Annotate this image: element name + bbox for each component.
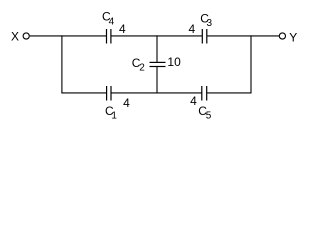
- label C4: [102, 10, 115, 28]
- node X: [11, 30, 19, 44]
- wire C3 to Y: [207, 35, 279, 37]
- wire middle branch lower: [156, 67, 158, 94]
- svg-text:X: X: [11, 30, 19, 44]
- svg-text:10: 10: [167, 55, 181, 69]
- capacitor C1: [107, 86, 111, 101]
- label C3: [200, 12, 212, 30]
- svg-text:1: 1: [111, 110, 117, 121]
- svg-text:4: 4: [109, 16, 115, 27]
- label C2: [132, 56, 146, 74]
- svg-text:4: 4: [190, 94, 197, 108]
- terminal X: [23, 33, 29, 39]
- terminal Y: [279, 33, 285, 39]
- wire bottom-left to C1: [61, 92, 106, 94]
- label C1: [105, 104, 117, 122]
- value 4 of C3: [189, 22, 196, 36]
- svg-text:5: 5: [206, 110, 212, 121]
- wire right branch up: [250, 35, 252, 93]
- wire X to C4: [30, 35, 106, 37]
- svg-text:4: 4: [189, 22, 196, 36]
- wire C1 to C5: [112, 92, 202, 94]
- label C5: [198, 104, 212, 122]
- capacitor C2: [150, 62, 166, 66]
- svg-text:Y: Y: [289, 31, 297, 45]
- svg-text:4: 4: [123, 96, 130, 110]
- value 4 of C4: [119, 22, 126, 36]
- wire C4 to C3: [111, 35, 202, 37]
- svg-text:4: 4: [119, 22, 126, 36]
- value 10 of C2: [167, 55, 181, 69]
- value 4 of C5: [190, 94, 197, 108]
- capacitor C4: [107, 29, 111, 44]
- svg-text:3: 3: [207, 18, 213, 29]
- wire C5 to bottom-right corner: [207, 92, 251, 94]
- node Y: [289, 31, 297, 45]
- capacitor C5: [202, 86, 207, 101]
- svg-text:2: 2: [139, 63, 145, 74]
- capacitor C3: [202, 29, 207, 44]
- wire left branch down: [61, 35, 63, 93]
- value 4 of C1: [123, 96, 130, 110]
- wire middle branch upper: [156, 35, 158, 62]
